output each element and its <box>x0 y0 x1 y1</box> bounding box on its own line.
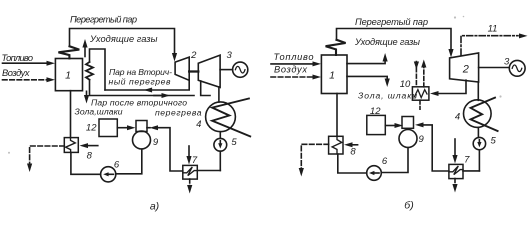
svg-text:8: 8 <box>350 147 356 158</box>
svg-text:Воздух: Воздух <box>2 68 30 78</box>
svg-text:Перегретый пар: Перегретый пар <box>355 17 428 27</box>
svg-text:7: 7 <box>464 155 470 166</box>
svg-text:5: 5 <box>231 137 237 148</box>
svg-text:Топливо: Топливо <box>2 53 34 63</box>
svg-text:8: 8 <box>87 150 93 161</box>
svg-text:4: 4 <box>196 119 201 130</box>
svg-text:11: 11 <box>488 24 498 35</box>
svg-text:Зола, шлаки: Зола, шлаки <box>358 90 417 100</box>
svg-text:4: 4 <box>455 111 460 122</box>
svg-text:2: 2 <box>462 63 469 75</box>
svg-text:ный перегрев: ный перегрев <box>109 76 172 86</box>
svg-text:Воздух: Воздух <box>274 65 307 75</box>
svg-text:б): б) <box>404 200 413 212</box>
svg-text:3: 3 <box>227 50 233 61</box>
svg-text:2: 2 <box>190 50 197 61</box>
svg-text:6: 6 <box>382 156 388 167</box>
svg-text:6: 6 <box>114 160 120 171</box>
svg-text:Топливо: Топливо <box>274 52 314 62</box>
svg-text:9: 9 <box>419 134 425 145</box>
svg-text:3: 3 <box>504 56 510 67</box>
svg-text:1: 1 <box>65 69 71 81</box>
svg-text:а): а) <box>150 201 159 213</box>
svg-text:9: 9 <box>153 137 159 148</box>
svg-text:Зола,шлаки: Зола,шлаки <box>75 107 123 117</box>
svg-text:5: 5 <box>491 136 497 147</box>
svg-text:Уходящие газы: Уходящие газы <box>89 34 158 44</box>
svg-text:1: 1 <box>329 69 335 81</box>
svg-text:Перегретый пар: Перегретый пар <box>70 14 137 24</box>
svg-text:перегрева: перегрева <box>155 107 202 117</box>
svg-text:12: 12 <box>370 106 381 117</box>
svg-text:7: 7 <box>192 155 198 166</box>
svg-text:12: 12 <box>86 123 97 134</box>
svg-text:10: 10 <box>400 79 411 90</box>
svg-text:Уходящие газы: Уходящие газы <box>354 37 420 47</box>
